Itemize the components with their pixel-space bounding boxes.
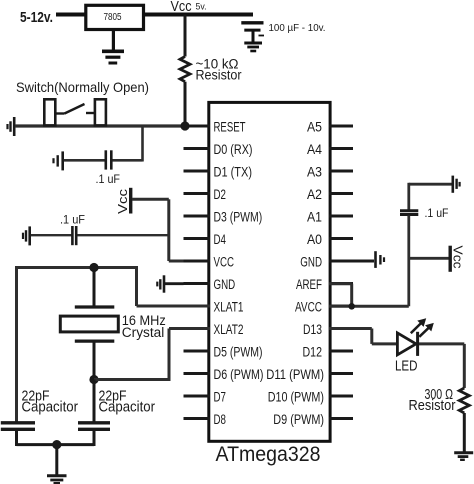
wire 7805 to Vcc rail bbox=[143, 13, 253, 17]
label crystal bbox=[122, 313, 166, 340]
ground bottom left bbox=[47, 476, 67, 483]
ground at C3 bbox=[23, 226, 30, 245]
svg-text:D8: D8 bbox=[214, 412, 227, 427]
Vcc symbol right bbox=[450, 246, 465, 272]
switch S1 right terminal bbox=[95, 99, 106, 125]
node AVCC junction bbox=[348, 303, 355, 310]
wire resistor to reset node bbox=[184, 82, 187, 126]
resistor R1 10k bbox=[180, 57, 190, 82]
label C6 value bbox=[425, 208, 449, 220]
resistor R2 300 ohm bbox=[459, 388, 469, 413]
pin A2 bbox=[307, 187, 353, 202]
svg-text:D9 (PWM): D9 (PWM) bbox=[273, 412, 324, 427]
node crystal top junction bbox=[89, 263, 98, 272]
label LED bbox=[395, 359, 418, 375]
pin D0 RX bbox=[184, 142, 253, 157]
wire caps bottom rail bbox=[17, 443, 95, 446]
svg-text:XLAT2: XLAT2 bbox=[214, 322, 244, 337]
label R2 value bbox=[409, 387, 456, 414]
svg-text:Vcc: Vcc bbox=[451, 246, 466, 270]
label 5-12v input bbox=[20, 10, 53, 26]
svg-text:100 µF - 10v.: 100 µF - 10v. bbox=[269, 22, 326, 34]
pin A3 bbox=[307, 164, 353, 179]
wire crystal bottom stem bbox=[93, 341, 96, 379]
label C5 value bbox=[99, 388, 156, 416]
svg-text:Resistor: Resistor bbox=[409, 398, 456, 414]
wire crystal top stem bbox=[93, 268, 96, 307]
label R1 value bbox=[196, 57, 242, 83]
capacitor C6 .1uF bbox=[400, 211, 418, 215]
svg-text:Capacitor: Capacitor bbox=[22, 399, 79, 416]
svg-text:A4: A4 bbox=[307, 142, 322, 157]
wire rail to C6 bbox=[407, 183, 410, 210]
ground at GND pin left bbox=[157, 275, 183, 292]
pin D2 bbox=[184, 187, 227, 202]
svg-text:A2: A2 bbox=[307, 187, 322, 202]
svg-text:D3 (PWM): D3 (PWM) bbox=[214, 209, 263, 224]
svg-text:Vcc: Vcc bbox=[115, 188, 130, 214]
pin AVCC bbox=[295, 299, 353, 314]
svg-text:Crystal: Crystal bbox=[122, 325, 165, 340]
pin D4 bbox=[184, 232, 227, 247]
wire C2 to reset wire bbox=[113, 126, 143, 162]
wire LED to resistor bbox=[419, 344, 464, 388]
pin AREF bbox=[296, 277, 353, 292]
regulator U1 7805 bbox=[86, 5, 144, 29]
svg-text:A1: A1 bbox=[307, 209, 322, 224]
wire junction to ground bbox=[55, 445, 58, 475]
pin D12 bbox=[303, 344, 354, 359]
svg-text:D7: D7 bbox=[214, 389, 227, 404]
label C3 value bbox=[60, 215, 85, 227]
svg-text:D1 (TX): D1 (TX) bbox=[214, 164, 253, 179]
rail crystal top bbox=[17, 266, 137, 269]
svg-text:D11 (PWM): D11 (PWM) bbox=[266, 367, 324, 382]
ground top right bbox=[453, 176, 460, 193]
pin A0 bbox=[307, 232, 353, 247]
svg-text:VCC: VCC bbox=[214, 254, 235, 269]
svg-text:D0 (RX): D0 (RX) bbox=[214, 142, 253, 157]
pin GND left bbox=[184, 277, 236, 292]
wire left rail down bbox=[15, 266, 18, 422]
wire resistor to ground bbox=[463, 413, 466, 452]
node reset junction bbox=[180, 121, 189, 130]
svg-text:D10 (PWM): D10 (PWM) bbox=[268, 389, 324, 404]
label C4 value bbox=[22, 388, 79, 416]
node caps ground junction bbox=[52, 440, 61, 449]
switch S1 lever bbox=[55, 104, 95, 114]
crystal Y1 16MHz bbox=[60, 307, 118, 341]
pin D11 PWM bbox=[266, 367, 353, 382]
pin XLAT2 bbox=[184, 322, 244, 337]
ground at C2 bbox=[54, 151, 63, 170]
svg-text:D2: D2 bbox=[214, 187, 227, 202]
svg-text:Vcc: Vcc bbox=[171, 0, 192, 15]
svg-text:.1 uF: .1 uF bbox=[425, 208, 449, 220]
wire top right ground bbox=[409, 183, 452, 186]
svg-text:A0: A0 bbox=[307, 232, 322, 247]
label switch bbox=[16, 79, 149, 95]
wire switch row to reset node bbox=[15, 124, 185, 127]
wire C6 down to AVCC rail bbox=[407, 216, 410, 307]
ground bottom right bbox=[454, 453, 473, 460]
wire AREF to AVCC node bbox=[329, 284, 352, 307]
svg-text:ATmega328: ATmega328 bbox=[216, 442, 321, 466]
svg-text:.1 uF: .1 uF bbox=[60, 215, 85, 227]
svg-text:7805: 7805 bbox=[104, 12, 122, 23]
wire Vcc to VCC pin bbox=[132, 199, 210, 261]
capacitor C2 .1uF bbox=[106, 150, 112, 169]
wire C5 stem bbox=[93, 380, 96, 422]
wire GND right pin to ground bbox=[329, 260, 374, 263]
wire rail to XLAT1 bbox=[137, 266, 211, 306]
svg-text:GND: GND bbox=[300, 254, 322, 269]
pin D5 PWM bbox=[184, 344, 263, 359]
label C2 value bbox=[96, 174, 121, 186]
svg-text:D12: D12 bbox=[303, 344, 323, 359]
svg-text:Resistor: Resistor bbox=[196, 68, 242, 83]
capacitor C5 22pF right bbox=[78, 423, 110, 446]
ground at switch bbox=[8, 117, 15, 136]
wire D13 to LED bbox=[329, 329, 397, 344]
pin XLAT1 bbox=[184, 299, 244, 314]
pin A5 bbox=[307, 119, 353, 134]
capacitor C4 22pF left bbox=[1, 423, 35, 446]
pin D3 PWM bbox=[184, 209, 263, 224]
svg-text:XLAT1: XLAT1 bbox=[214, 299, 244, 314]
svg-text:AREF: AREF bbox=[296, 277, 322, 292]
LED D1 bbox=[397, 318, 433, 356]
svg-text:.1 uF: .1 uF bbox=[96, 174, 121, 186]
wire rail to Vcc right bbox=[409, 257, 449, 260]
IC U2 ATmega328 bbox=[209, 102, 330, 466]
svg-text:Capacitor: Capacitor bbox=[99, 399, 156, 416]
pin A1 bbox=[307, 209, 353, 224]
pin D7 bbox=[184, 389, 227, 404]
pin VCC bbox=[184, 254, 235, 269]
wire Vcc drop to resistor bbox=[184, 15, 187, 57]
svg-text:AVCC: AVCC bbox=[295, 299, 322, 314]
pin GND right bbox=[300, 254, 353, 269]
capacitor C1 100uF bbox=[241, 23, 264, 42]
svg-text:D5 (PWM): D5 (PWM) bbox=[214, 344, 263, 359]
pin RESET bbox=[184, 119, 246, 134]
ground at GND pin right bbox=[376, 251, 385, 268]
capacitor C3 .1uF bbox=[72, 226, 76, 245]
svg-text:GND: GND bbox=[214, 277, 236, 292]
switch S1 left terminal bbox=[44, 99, 55, 125]
wire ground to C2 bbox=[64, 159, 105, 162]
ground under C1 bbox=[244, 43, 262, 51]
wire AVCC row bbox=[329, 305, 409, 308]
pin D9 PWM bbox=[273, 412, 353, 427]
svg-text:5v.: 5v. bbox=[196, 2, 207, 13]
pin A4 bbox=[307, 142, 353, 157]
svg-text:A5: A5 bbox=[307, 119, 322, 134]
svg-text:5-12v.: 5-12v. bbox=[20, 10, 53, 26]
svg-text:D4: D4 bbox=[214, 232, 227, 247]
node crystal bottom junction bbox=[89, 375, 98, 384]
svg-text:D13: D13 bbox=[303, 322, 322, 337]
wire input to 7805 bbox=[56, 13, 86, 17]
label Vcc 5v bbox=[171, 0, 207, 15]
pin D1 TX bbox=[184, 164, 253, 179]
wire C3 to VCC wire bbox=[77, 234, 169, 236]
pin D6 PWM bbox=[184, 367, 264, 382]
wire to XLAT2 bbox=[94, 329, 210, 382]
wire ground to C3 bbox=[31, 234, 72, 236]
ground under 7805 bbox=[102, 31, 124, 63]
svg-text:RESET: RESET bbox=[214, 119, 246, 134]
pin D10 PWM bbox=[268, 389, 353, 404]
pin D13 bbox=[303, 322, 353, 337]
svg-text:Switch(Normally Open): Switch(Normally Open) bbox=[16, 79, 149, 95]
pin D8 bbox=[184, 412, 227, 427]
svg-text:LED: LED bbox=[395, 359, 418, 375]
svg-text:D6 (PWM): D6 (PWM) bbox=[214, 367, 264, 382]
Vcc symbol left bbox=[115, 188, 131, 214]
label 100uF value bbox=[269, 22, 326, 34]
svg-text:A3: A3 bbox=[307, 164, 322, 179]
